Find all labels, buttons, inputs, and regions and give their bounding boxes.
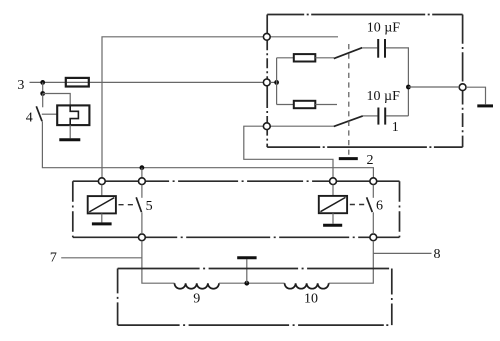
terminal circle switch5 top (139, 178, 146, 185)
wire divider vertical (276, 58, 278, 105)
switch blade lower (ganged switch 1) (334, 116, 363, 127)
switch 5 upper stub (141, 185, 143, 198)
relay coil 6 box (319, 196, 347, 213)
wire C2 right to node (386, 115, 408, 117)
relay 5 ground stem (101, 213, 103, 222)
capacitor C1 plate left (377, 39, 379, 58)
box 1 border left edge segment 2 (266, 40, 268, 78)
wire blade to capacitor C2 (363, 115, 378, 117)
wire between the two left dots (42, 82, 44, 93)
svg-text:5: 5 (146, 199, 153, 214)
terminal circle box1 bottom-left (263, 123, 270, 130)
box 1 border left edge segment 1 (266, 15, 268, 34)
capacitor C2 plate right (384, 108, 386, 125)
svg-text:7: 7 (50, 251, 57, 266)
wire tap down to switch 5 terminal (141, 168, 143, 178)
relay coil K4 box (57, 105, 89, 125)
wire switch5 bottom to winding 9 (142, 241, 175, 284)
wire into relay 6 coil (332, 185, 334, 196)
capacitor C1 plate right (384, 39, 386, 58)
wire switch4 bottom / bus A to relay coils 5,6 (42, 121, 373, 178)
switch blade upper (ganged switch 1) (334, 48, 362, 59)
relay 6 ground stem (332, 213, 334, 224)
junction dot bus A tap to switch 5 (140, 165, 145, 170)
bottom box border bottom edge (118, 324, 392, 326)
wire C1 to output node (386, 48, 409, 116)
switch 4 upper stub (42, 94, 44, 108)
wire R1 right to switch pivot (315, 57, 334, 59)
middle box border top dash-dot run (145, 180, 330, 182)
wire into relay 5 coil (101, 185, 103, 197)
junction dot center tap (244, 281, 249, 286)
svg-text:8: 8 (434, 247, 441, 262)
svg-text:6: 6 (376, 198, 383, 213)
switch 5 blade (136, 197, 141, 212)
terminal circle switch5 bottom (139, 234, 146, 241)
wire to resistor R2 left (277, 104, 294, 106)
wire node to right terminal (408, 86, 459, 88)
wire box1 top terminal to relay 5 terminal (long left loop) (102, 37, 263, 178)
winding 9 (175, 283, 219, 289)
terminal circle relay5 coil top (98, 178, 105, 185)
switch 6 upper stub (372, 185, 374, 198)
wire R2 right open contact (315, 104, 337, 106)
resistor R2 (294, 101, 316, 108)
relay K4 ground stem (69, 125, 71, 138)
capacitor C2 plate left (377, 108, 379, 125)
wire box1 top terminal inward open contact (270, 36, 338, 38)
bottom box border left edge (117, 269, 119, 326)
center tap ground stem (246, 259, 248, 283)
junction dot feeding switch 4 (40, 91, 45, 96)
junction dot output node (406, 85, 411, 90)
svg-text:4: 4 (26, 111, 33, 126)
wire right terminal to ground (466, 87, 485, 104)
linkage dashes relay6 to switch6 (350, 204, 366, 206)
box 1 border top edge (267, 14, 462, 16)
relay coil 5 box (88, 196, 116, 213)
ground under relay K4 (59, 138, 80, 141)
resistor R1 (294, 54, 316, 61)
junction dot divider node (274, 80, 279, 85)
switch 5 lower stub (141, 212, 143, 234)
terminal circle relay6 coil top (330, 178, 337, 185)
middle box border top solid segments (73, 180, 400, 182)
wire switch 4 to relay K4 coil left (42, 113, 57, 115)
wire node-3 row to box 1 left terminal (30, 81, 264, 83)
ganged switch linkage dashed (348, 44, 350, 157)
terminal circle switch6 top (370, 178, 377, 185)
svg-text:3: 3 (17, 78, 24, 93)
bottom box border top edge (118, 268, 392, 270)
fuse in node-3 wire (66, 78, 89, 87)
bottom box border right edge (391, 269, 393, 326)
terminal circle box1 top-left (263, 33, 270, 40)
svg-text:2: 2 (367, 153, 374, 168)
linkage dashes relay5 to switch5 (119, 204, 135, 206)
ground under relay 5 (92, 222, 112, 225)
box 1 border left edge segment 3 (266, 86, 268, 123)
middle box border bottom solid segments (73, 236, 400, 238)
wire box1 bottom-left terminal loop to relay 6 coil (244, 126, 333, 178)
switch 6 lower stub (372, 212, 374, 234)
middle box border right edge (399, 181, 401, 237)
box 1 border left edge segment 4 (266, 130, 268, 148)
box 1 border right edge lower (462, 91, 464, 148)
wire box1 bottom-left terminal inward to switch pivot (270, 125, 334, 127)
winding 10 (285, 283, 329, 289)
relay K4 inner step conductor (70, 105, 78, 125)
svg-text:10 µF: 10 µF (367, 20, 401, 35)
box 1 border right edge upper (462, 15, 464, 84)
ground right of box 1 (477, 104, 493, 107)
wire blade to capacitor C1 (362, 47, 377, 49)
switch 6 blade (367, 197, 373, 212)
relay coil 6 diagonal (320, 197, 345, 211)
wire dot to relay K4 coil top (43, 94, 70, 106)
svg-text:1: 1 (392, 120, 399, 135)
wire between windings (219, 282, 285, 284)
junction dot on node-3 wire (40, 80, 45, 85)
terminal circle switch6 bottom (370, 234, 377, 241)
terminal circle box1 right (459, 84, 466, 91)
relay coil 5 diagonal (89, 198, 114, 212)
ground 2 bar (339, 157, 358, 160)
wire switch6 bottom to winding 10 (329, 241, 374, 284)
middle box border left edge (72, 181, 74, 237)
middle box border bottom dash-dot run (145, 236, 370, 238)
wire stub mid terminal to divider node (270, 81, 276, 83)
center tap ground bar (237, 256, 256, 259)
svg-text:10 µF: 10 µF (367, 89, 401, 104)
switch 4 blade (36, 106, 42, 121)
ground under relay 6 (323, 224, 342, 227)
wire to resistor R1 left (277, 57, 294, 59)
wire node 8 (373, 252, 431, 254)
svg-text:9: 9 (193, 292, 200, 307)
terminal circle box1 mid-left (263, 79, 270, 86)
svg-text:10: 10 (304, 292, 318, 307)
wire node 7 (61, 257, 142, 259)
box 1 border bottom edge (267, 146, 462, 148)
